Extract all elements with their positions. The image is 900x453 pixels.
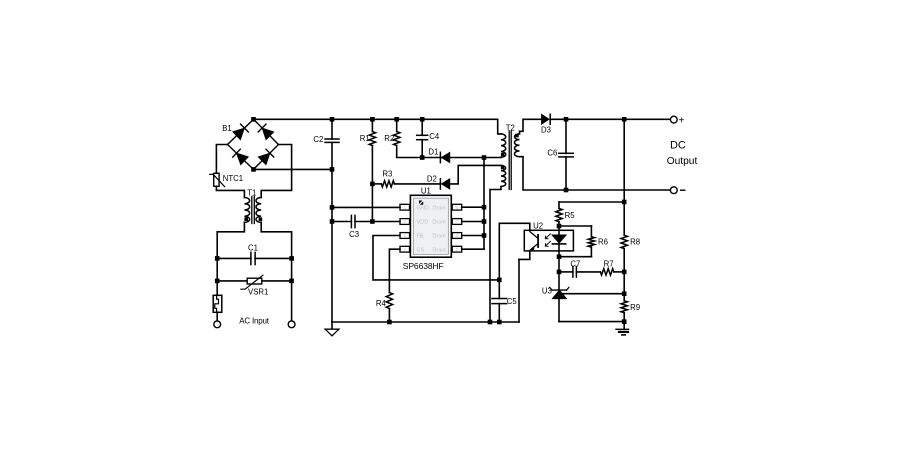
svg-text:Drain: Drain xyxy=(432,220,445,226)
svg-text:R9: R9 xyxy=(630,303,640,312)
svg-text:D3: D3 xyxy=(541,125,551,134)
svg-text:VDD: VDD xyxy=(417,220,429,226)
svg-text:B1: B1 xyxy=(222,124,232,133)
svg-text:R4: R4 xyxy=(376,299,387,308)
svg-text:U3: U3 xyxy=(542,287,552,296)
svg-text:R3: R3 xyxy=(382,170,392,179)
svg-text:R6: R6 xyxy=(598,237,608,246)
svg-text:U2: U2 xyxy=(533,221,543,230)
svg-text:T2: T2 xyxy=(506,123,515,132)
svg-text:AC Input: AC Input xyxy=(239,316,270,325)
svg-text:VSR1: VSR1 xyxy=(248,287,268,296)
svg-text:R5: R5 xyxy=(565,211,576,220)
svg-text:Drain: Drain xyxy=(432,205,445,211)
svg-text:8: 8 xyxy=(456,205,459,210)
svg-text:NTC1: NTC1 xyxy=(223,174,243,183)
svg-text:2: 2 xyxy=(404,219,407,224)
svg-text:6: 6 xyxy=(456,233,459,238)
svg-text:+: + xyxy=(678,115,684,126)
svg-text:5: 5 xyxy=(456,247,459,252)
svg-text:R7: R7 xyxy=(604,260,614,269)
svg-text:R8: R8 xyxy=(630,237,640,246)
svg-text:DC: DC xyxy=(670,140,686,152)
svg-text:R2: R2 xyxy=(384,134,394,143)
svg-text:3: 3 xyxy=(404,233,407,238)
svg-text:C1: C1 xyxy=(248,244,258,253)
svg-text:C4: C4 xyxy=(429,132,440,141)
svg-text:1: 1 xyxy=(404,205,407,210)
svg-text:SP6638HF: SP6638HF xyxy=(403,261,444,271)
svg-text:Output: Output xyxy=(667,156,698,167)
svg-text:GND: GND xyxy=(417,205,429,211)
svg-text:U1: U1 xyxy=(421,187,431,196)
svg-text:C6: C6 xyxy=(547,148,557,157)
svg-text:C5: C5 xyxy=(507,297,518,306)
svg-text:D2: D2 xyxy=(427,174,437,183)
svg-text:Drain: Drain xyxy=(432,234,445,240)
svg-text:Drain: Drain xyxy=(432,247,445,253)
svg-text:C2: C2 xyxy=(313,135,323,144)
svg-text:FB: FB xyxy=(417,234,424,240)
svg-text:C7: C7 xyxy=(570,260,580,269)
svg-text:C3: C3 xyxy=(349,230,359,239)
svg-text:R1: R1 xyxy=(360,134,370,143)
svg-text:7: 7 xyxy=(456,219,459,224)
svg-text:D1: D1 xyxy=(428,147,438,156)
svg-text:4: 4 xyxy=(404,247,407,252)
svg-text:CS: CS xyxy=(417,247,425,253)
